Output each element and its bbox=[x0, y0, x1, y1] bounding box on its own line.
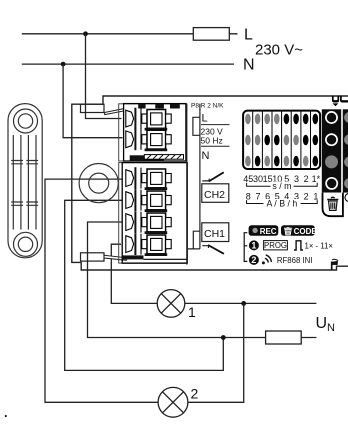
box PROG bbox=[264, 241, 288, 250]
panel1 button top2 bbox=[326, 134, 337, 145]
svg-text:N: N bbox=[202, 150, 210, 162]
bracket CH1 bbox=[193, 231, 200, 249]
svg-text:N: N bbox=[327, 322, 335, 334]
wire C CH1-to-UN bbox=[88, 222, 317, 338]
wire N line bbox=[22, 63, 234, 65]
button REC bbox=[249, 225, 279, 236]
terminal N bbox=[126, 128, 171, 151]
node junction on N bbox=[61, 62, 66, 67]
icon cup2 (cut) bbox=[341, 96, 348, 102]
step 2 circle bbox=[249, 255, 259, 265]
svg-text:RF868 INI: RF868 INI bbox=[277, 256, 313, 265]
terminal CH1b bbox=[126, 233, 171, 256]
bracket L-N bbox=[193, 117, 200, 135]
step 1 circle bbox=[249, 240, 259, 250]
group divider band bbox=[130, 155, 164, 161]
lamp 2 bbox=[158, 387, 188, 417]
device housing outline bbox=[72, 96, 348, 270]
node junction on L bbox=[83, 31, 88, 36]
wire D CH1-to-lamp1 bbox=[111, 244, 157, 303]
lamp 1 bbox=[157, 290, 185, 318]
svg-text:30: 30 bbox=[253, 174, 263, 184]
rule under 50Hz bbox=[201, 145, 230, 147]
switch CH1 bbox=[202, 246, 208, 248]
panel1 button top1 bbox=[326, 112, 337, 123]
svg-text:45: 45 bbox=[243, 174, 253, 184]
bracket A/B/h bbox=[247, 200, 318, 203]
svg-text:L: L bbox=[202, 113, 208, 125]
svg-text:8: 8 bbox=[246, 192, 251, 202]
terminal CH2b bbox=[126, 189, 171, 212]
wire A L-to-terminal bbox=[86, 34, 122, 119]
svg-text:U: U bbox=[316, 315, 328, 332]
svg-text:50 Hz: 50 Hz bbox=[201, 136, 223, 146]
svg-text:CH2: CH2 bbox=[204, 189, 225, 201]
svg-text:s / m: s / m bbox=[272, 181, 291, 191]
wire lamp1-right bbox=[185, 302, 317, 304]
box CH2 bbox=[202, 184, 229, 203]
block bottom edge bbox=[122, 259, 187, 263]
node junction UN line bbox=[221, 335, 226, 340]
svg-text:CH1: CH1 bbox=[204, 228, 225, 240]
wire F CH2-return bbox=[65, 200, 224, 370]
flag icon bbox=[331, 262, 333, 271]
bracket s/m bbox=[247, 183, 318, 186]
terminal CH1a bbox=[126, 211, 171, 234]
DIP scale numbers row2 bbox=[246, 192, 319, 202]
bracket steps bbox=[244, 233, 247, 262]
svg-text:1: 1 bbox=[251, 241, 256, 251]
terminal block housing lower group bbox=[119, 163, 188, 264]
block bottom bar bbox=[122, 255, 143, 259]
antenna plate bbox=[8, 104, 42, 258]
terminal block housing top group bbox=[119, 104, 187, 161]
svg-text:2: 2 bbox=[304, 192, 309, 202]
DIP scale numbers row1 bbox=[243, 174, 320, 184]
svg-text:PROG: PROG bbox=[264, 241, 287, 250]
icon cup1 bbox=[333, 96, 339, 102]
switch CH2 bbox=[202, 179, 209, 181]
svg-text:2: 2 bbox=[304, 174, 309, 184]
button CODE bbox=[281, 225, 315, 236]
svg-text:REC: REC bbox=[260, 227, 277, 236]
panel2 gray buttons bbox=[344, 112, 348, 123]
wire E CH2-to-lamp2 bbox=[45, 179, 158, 402]
svg-text:L: L bbox=[244, 27, 253, 44]
pulse icon bbox=[294, 241, 303, 250]
panel1 button gray bbox=[325, 155, 338, 168]
terminal L bbox=[126, 108, 171, 131]
mounting tab bottom-left bbox=[81, 253, 105, 261]
black button panel 2 (cut) bbox=[343, 109, 348, 192]
svg-text:1: 1 bbox=[188, 304, 196, 320]
DIP column separators bbox=[253, 111, 311, 169]
DIP ovals row1 bbox=[245, 114, 318, 125]
wire lamp1-to-lamp2 bbox=[188, 303, 244, 402]
panel1 button 4 bbox=[326, 178, 337, 189]
DIP ovals row3 bbox=[245, 156, 318, 167]
svg-text:A / B / h: A / B / h bbox=[266, 198, 297, 208]
mounting tab top-left bbox=[81, 104, 105, 112]
svg-text:.: . bbox=[4, 405, 8, 420]
node junction lamp1 bbox=[241, 301, 246, 306]
trash icon big bbox=[327, 197, 338, 210]
svg-text:3: 3 bbox=[294, 174, 299, 184]
svg-text:1: 1 bbox=[313, 192, 318, 202]
black button panel 1 bbox=[322, 109, 341, 192]
partial G label bbox=[345, 194, 348, 202]
cable gland circle bbox=[79, 164, 118, 203]
svg-text:N: N bbox=[243, 57, 255, 74]
fuse F1 on L bbox=[193, 28, 229, 41]
screw head marks top bbox=[138, 104, 145, 109]
svg-text:230 V~: 230 V~ bbox=[255, 42, 303, 59]
screw wedge top-left bbox=[105, 109, 124, 115]
svg-text:7: 7 bbox=[255, 192, 260, 202]
svg-text:2: 2 bbox=[191, 386, 199, 402]
fuse F2 UN bbox=[266, 331, 302, 344]
svg-text:1× - 11×: 1× - 11× bbox=[305, 242, 334, 251]
DIP ovals row2 bbox=[245, 135, 318, 146]
svg-text:2: 2 bbox=[251, 255, 256, 265]
label column lines bbox=[187, 104, 200, 265]
wire L line bbox=[22, 33, 238, 35]
trash tab bbox=[323, 193, 343, 217]
svg-text:1*: 1* bbox=[312, 174, 321, 184]
screw wedge bottom-left bbox=[104, 255, 127, 260]
svg-text:P8 R 2 N/K: P8 R 2 N/K bbox=[191, 103, 224, 110]
DIP matrix frame bbox=[243, 111, 320, 169]
rule under L bbox=[201, 124, 230, 126]
terminal CH2a bbox=[126, 167, 171, 190]
box CH1 bbox=[202, 223, 229, 242]
RF waves icon bbox=[262, 255, 272, 265]
wire B N-to-terminal bbox=[63, 64, 122, 138]
svg-text:CODE: CODE bbox=[294, 227, 318, 236]
